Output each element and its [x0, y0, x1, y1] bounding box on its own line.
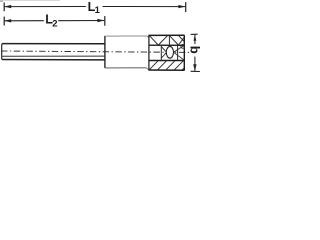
mouth chamfer upper: [174, 46, 185, 53]
section inner bottom line: [149, 60, 184, 62]
L1 right arrowhead: [178, 5, 185, 8]
shaft hex ridge line: [2, 55, 104, 57]
socket left face: [148, 36, 150, 71]
shaft top edge: [2, 43, 104, 45]
svg-text:1: 1: [95, 5, 101, 16]
collar-to-socket bottom fillet: [146, 68, 149, 70]
L1 left arrowhead: [4, 5, 11, 8]
dimension L2 line right segment: [58, 20, 104, 22]
dimension L1 line right segment: [103, 6, 186, 8]
top band hatch stroke 4: [170, 36, 179, 45]
scan edge mark top-left: [0, 0, 3, 2]
dimension L1 line left segment: [4, 6, 85, 8]
L2 left extension tick: [3, 17, 5, 26]
d-dim line upper segment: [194, 35, 196, 44]
top band hatch stroke 2: [158, 36, 167, 45]
mouth chamfer lower: [174, 52, 185, 60]
d-dim down arrowhead: [193, 64, 196, 71]
d-dim up arrowhead: [194, 35, 197, 41]
svg-text:2: 2: [52, 18, 57, 29]
L2 right extension tick: [104, 16, 106, 26]
svg-text:b: b: [187, 46, 202, 54]
bottom band hatch stroke 4: [174, 61, 183, 70]
label b (rotated): [187, 46, 202, 54]
cavity left funnel upper: [161, 47, 166, 53]
collar top edge (faint): [105, 35, 147, 37]
bottom band hatch stroke 1: [149, 61, 158, 70]
cavity left funnel lower: [161, 52, 166, 58]
collar bottom edge (faint): [105, 67, 146, 69]
L1 left extension tick: [3, 2, 5, 11]
top band hatch stroke 6: [179, 36, 184, 42]
top band hatch stroke 3: [168, 36, 170, 45]
section inner top line: [149, 44, 184, 46]
cross-hole ellipse: [166, 46, 173, 58]
bottom band hatch stroke 3: [166, 61, 175, 70]
shoulder vertical at collar: [104, 36, 106, 68]
shaft left end cap: [2, 44, 3, 60]
shaft bottom edge: [2, 59, 104, 61]
ball detail at mouth corner: [181, 45, 185, 49]
L1 right extension tick: [185, 2, 187, 12]
socket bottom edge: [148, 69, 184, 71]
d-dim bottom extension tick: [191, 70, 200, 72]
cavity left wall: [160, 45, 162, 60]
d-dim top extension tick: [191, 33, 198, 35]
d-dim line lower segment: [194, 57, 196, 72]
scan faint top border: [0, 0, 60, 2]
socket top edge: [148, 34, 184, 36]
top band hatch stroke 5: [179, 37, 185, 45]
cavity right wall: [177, 45, 179, 60]
bottom band hatch stroke 5 (partial): [182, 68, 184, 70]
top band hatch stroke 1: [150, 36, 159, 45]
centerline (dash-dot axis): [1, 51, 193, 52]
bottom band hatch stroke 2: [158, 61, 167, 70]
collar-to-socket top fillet: [147, 36, 149, 38]
dimension L2 line left segment: [4, 20, 43, 22]
L2 right arrowhead: [97, 19, 104, 22]
L2 left arrowhead: [4, 19, 11, 22]
socket right face: [183, 35, 185, 70]
